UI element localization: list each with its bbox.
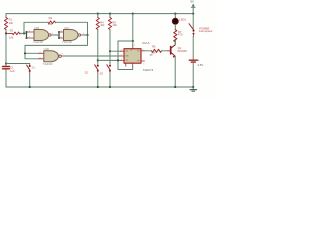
wire gate1 out to gate2 in — [51, 34, 54, 36]
resistor R3 — [48, 21, 56, 24]
svg-text:+: + — [198, 58, 200, 62]
supply arrow 9V — [192, 13, 194, 15]
svg-text:10k: 10k — [9, 35, 14, 39]
nand gate U1D — [44, 51, 59, 62]
wire left column — [5, 14, 7, 87]
gate U1B input tie — [26, 32, 28, 39]
svg-text:interrupteur: interrupteur — [199, 29, 213, 33]
svg-text:C1: C1 — [10, 65, 14, 69]
wire C1 row to S1 — [6, 64, 30, 66]
svg-text:U1C: U1C — [64, 26, 69, 30]
ground — [192, 86, 194, 88]
wire R6 to base — [162, 50, 168, 52]
wire gate3 output to IC pin — [61, 55, 63, 57]
wire collector up / emitter down — [174, 40, 176, 87]
gate U1C input tie — [58, 32, 60, 39]
nand gate U1B — [34, 30, 49, 41]
transistor Q1 — [170, 47, 172, 54]
svg-text:1: 1 — [134, 44, 135, 46]
svg-text:5: 5 — [61, 37, 62, 39]
node branch to clock loop — [132, 40, 134, 42]
svg-text:6: 6 — [83, 33, 84, 35]
wire switch to battery — [192, 37, 194, 60]
wire gate2 out down and left to gate3 inputs — [25, 35, 88, 59]
node junction R1/R2 — [5, 32, 7, 34]
svg-text:IC2 A: IC2 A — [142, 41, 149, 45]
svg-text:4: 4 — [121, 59, 122, 61]
svg-text:S1: S1 — [32, 66, 36, 70]
wire top supply rail — [6, 13, 193, 15]
svg-text:10k: 10k — [48, 22, 53, 26]
svg-text:10: 10 — [39, 57, 41, 59]
resistor R5 with column — [109, 13, 111, 15]
svg-text:S3: S3 — [100, 72, 104, 76]
svg-text:R6: R6 — [152, 44, 156, 48]
node R4 column to IC row — [97, 59, 99, 61]
svg-text:S2: S2 — [85, 71, 89, 75]
svg-text:8: 8 — [62, 54, 63, 56]
wire to R6 — [145, 50, 152, 52]
svg-text:R3: R3 — [49, 16, 53, 20]
svg-text:4: 4 — [61, 31, 62, 33]
svg-text:10k: 10k — [100, 23, 105, 27]
svg-text:2SC945: 2SC945 — [177, 49, 187, 53]
svg-text:LED1: LED1 — [179, 17, 186, 21]
svg-text:1: 1 — [29, 31, 30, 33]
switch S3 — [109, 65, 111, 67]
svg-text:3: 3 — [121, 54, 122, 56]
svg-text:3: 3 — [52, 33, 53, 35]
svg-text:9: 9 — [40, 52, 41, 54]
node gate2 out junction — [86, 34, 88, 36]
resistor R6 — [152, 49, 162, 52]
switch S1 — [29, 65, 31, 67]
wire gate2 output — [81, 34, 83, 36]
svg-text:74HC74: 74HC74 — [143, 68, 154, 72]
resistor R1 — [4, 18, 7, 30]
svg-text:10k: 10k — [112, 23, 117, 27]
svg-text:U1B: U1B — [34, 26, 39, 30]
capacitor C1 — [5, 62, 7, 64]
svg-text:470: 470 — [178, 33, 183, 37]
IC top/bottom pin stubs — [126, 46, 133, 67]
svg-text:74HC00: 74HC00 — [33, 40, 43, 44]
svg-text:R1: R1 — [9, 18, 13, 22]
svg-text:2: 2 — [121, 50, 122, 52]
svg-text:10k: 10k — [151, 51, 156, 55]
LED1 — [174, 13, 176, 15]
node R5 column to IC pin1 row — [109, 50, 111, 52]
wire bottom ground rail — [6, 86, 193, 88]
wire feedback to gate2 output node — [56, 22, 88, 35]
wire feedback R3 loop — [24, 22, 48, 33]
svg-text:10k: 10k — [9, 21, 14, 25]
gate U1D input pins — [39, 53, 44, 59]
junction feedback drop on R2 net — [23, 32, 25, 34]
svg-text:74HC00: 74HC00 — [62, 40, 72, 44]
svg-text:74HC00: 74HC00 — [43, 62, 53, 66]
svg-text:R2: R2 — [10, 28, 14, 32]
resistor R2 — [6, 32, 20, 35]
IC U2 box 74HC74 — [124, 49, 141, 64]
svg-text:4.5V: 4.5V — [197, 63, 203, 67]
nand gate U1C — [64, 30, 79, 41]
IC right pin stubs — [141, 51, 145, 61]
svg-text:9V: 9V — [190, 0, 194, 4]
switch POWER interrupteur — [192, 14, 194, 30]
battery 4.5V — [189, 59, 197, 61]
wire IC top feed from rail — [132, 13, 134, 15]
IC left pin stubs — [121, 51, 125, 60]
svg-text:1uF: 1uF — [10, 69, 15, 73]
IC pin name specks — [126, 50, 153, 62]
node 4-way junction — [117, 59, 119, 61]
resistor R7 — [174, 30, 177, 42]
switch S2 — [97, 65, 99, 67]
svg-text:2: 2 — [29, 37, 30, 39]
resistor R4 with column — [97, 13, 99, 15]
svg-text:6: 6 — [143, 63, 144, 65]
svg-text:U1D: U1D — [44, 47, 49, 51]
